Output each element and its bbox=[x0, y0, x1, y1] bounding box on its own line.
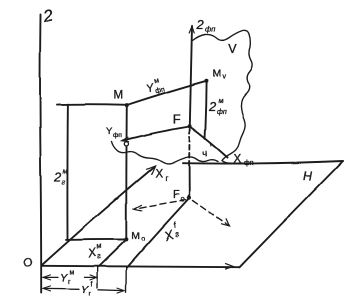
svg-text:2: 2 bbox=[41, 6, 55, 27]
arrowhead at Y_фп end bbox=[122, 137, 129, 141]
svg-text:o: o bbox=[141, 236, 145, 243]
node Y_фп (open circle on vertical) bbox=[124, 142, 128, 146]
svg-text:фп: фп bbox=[205, 25, 215, 34]
label Z_г^м bbox=[53, 166, 68, 186]
label Y_фп^м bbox=[144, 76, 166, 97]
wire: bottom horizontal from O to H corner (Y axis) bbox=[42, 266, 240, 267]
wire: rectangle left vertical x=68 bbox=[66, 104, 68, 239]
label Mv bbox=[213, 68, 227, 81]
svg-text:v: v bbox=[223, 74, 227, 81]
axis Z_фп solid segment to F0 bbox=[188, 164, 190, 198]
arrowhead dashed-left bbox=[134, 205, 142, 211]
label Ч' bbox=[200, 143, 215, 160]
svg-text:фп: фп bbox=[217, 109, 227, 116]
label X_фп bbox=[234, 154, 254, 168]
node F0 bbox=[187, 196, 191, 200]
arrowhead dim2 right bbox=[118, 288, 125, 293]
svg-text:X: X bbox=[155, 169, 163, 181]
node M0 bbox=[124, 237, 128, 241]
svg-text:м: м bbox=[70, 270, 75, 277]
svg-text:M: M bbox=[131, 230, 140, 242]
dimension Y_г^м (first dimension line) bbox=[44, 276, 97, 278]
label X_г^м bbox=[85, 241, 104, 263]
node M bbox=[125, 103, 129, 107]
svg-text:2: 2 bbox=[196, 17, 205, 32]
arrowhead X_г bbox=[147, 166, 156, 174]
axis X_г diagonal from O with arrow bbox=[43, 168, 154, 265]
svg-text:м: м bbox=[63, 166, 68, 175]
svg-text:f: f bbox=[90, 282, 92, 289]
svg-text:X: X bbox=[234, 154, 242, 166]
plane V bottom wavy boundary bbox=[112, 142, 219, 164]
dimension Y_г^f (second dimension line) bbox=[44, 289, 125, 291]
svg-text:ч: ч bbox=[201, 148, 209, 160]
axis Z (left vertical axis) bbox=[40, 15, 41, 294]
arrowhead on bottom line bbox=[226, 264, 234, 269]
arrowhead Z_фп top bbox=[189, 26, 194, 33]
svg-text:H: H bbox=[304, 169, 314, 183]
svg-text:фп: фп bbox=[113, 132, 122, 139]
svg-text:Y: Y bbox=[81, 285, 89, 297]
svg-text:г: г bbox=[68, 279, 71, 286]
label Y_фп bbox=[106, 126, 122, 139]
arrowhead dim1 left bbox=[43, 275, 51, 280]
axis X_фп (long horizontal) bbox=[183, 161, 343, 164]
wire: vertical from Mv down bbox=[205, 81, 207, 139]
svg-text:г: г bbox=[174, 229, 181, 239]
axis Z_фп (vertical, solid above F) bbox=[190, 26, 192, 127]
label X_г^f bbox=[160, 220, 181, 243]
svg-text:г: г bbox=[96, 251, 102, 261]
label X_г bbox=[155, 169, 168, 184]
wire: line F0 down-left to bottom line bbox=[127, 200, 188, 268]
node Mv bbox=[204, 79, 208, 83]
tick at x=97 below bottom line bbox=[96, 267, 98, 288]
plane H right edge bbox=[240, 161, 344, 267]
tick at x=126 below bottom line bbox=[125, 267, 127, 292]
label M0 bbox=[131, 230, 145, 243]
svg-text:г: г bbox=[165, 174, 168, 183]
svg-text:Y: Y bbox=[60, 273, 68, 285]
arrowhead dim2 left bbox=[43, 286, 51, 291]
label Y_г^f bbox=[81, 282, 93, 299]
svg-text:г: г bbox=[89, 291, 92, 298]
wire: rectangle bottom edge y=239 bbox=[66, 238, 126, 240]
node F bbox=[188, 124, 192, 128]
svg-text:Y: Y bbox=[106, 126, 113, 137]
svg-text:V: V bbox=[229, 42, 238, 56]
dashed arrow from F0 to lower-right bbox=[193, 201, 230, 227]
plane V wavy boundary (top and right) bbox=[193, 30, 253, 163]
axis Z_фп dashed segment below F bbox=[188, 129, 191, 164]
svg-text:фп: фп bbox=[244, 160, 254, 167]
wire: line M to Mv bbox=[127, 81, 207, 105]
svg-text:M: M bbox=[213, 68, 222, 80]
svg-text:o: o bbox=[180, 195, 184, 204]
svg-text:F: F bbox=[173, 189, 180, 201]
svg-text:м: м bbox=[153, 77, 160, 85]
wire: top horizontal line y=104 from x57 to M bbox=[57, 103, 127, 106]
wire: line F to Y_фп circle bbox=[123, 127, 190, 141]
svg-text:м: м bbox=[95, 241, 102, 251]
arrowhead dashed-right bbox=[222, 219, 230, 227]
svg-text:O: O bbox=[24, 258, 33, 270]
svg-text:F: F bbox=[173, 112, 181, 127]
wire: vertical below M down to M0 bbox=[125, 106, 128, 240]
wire: diagonal F to X axis bbox=[190, 127, 228, 158]
svg-text:м: м bbox=[219, 98, 224, 105]
arrowhead dim1 right bbox=[90, 275, 97, 280]
svg-text:г: г bbox=[62, 177, 66, 186]
svg-text:M: M bbox=[114, 90, 124, 102]
label Y_г^м bbox=[60, 270, 75, 287]
label F0 bbox=[173, 189, 185, 204]
dashed arrow from F0 to lower-left bbox=[135, 200, 186, 209]
label Z_фп^м bbox=[208, 98, 226, 116]
wire: diagonal from M0 to bottom line bbox=[99, 240, 127, 267]
label Z_фп bbox=[196, 17, 216, 34]
